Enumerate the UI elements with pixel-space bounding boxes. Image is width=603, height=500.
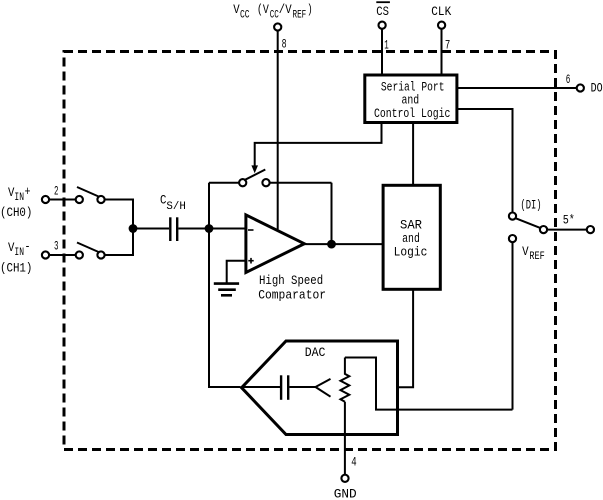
wire CS pin to serial port box bbox=[381, 29, 383, 76]
svg-text:REF: REF bbox=[529, 251, 544, 263]
svg-text:(V: (V bbox=[257, 2, 269, 17]
svg-text:CC: CC bbox=[270, 9, 279, 21]
wire resistor bottom to GND pin bbox=[344, 402, 346, 476]
svg-text:DAC: DAC bbox=[305, 345, 326, 360]
wire capacitor to wiper arrow bbox=[289, 386, 315, 388]
pin 2 VIN+ terminal bbox=[0, 184, 59, 220]
pin 5 terminal bbox=[563, 213, 594, 234]
wire pin2 to switch S1 bbox=[49, 199, 76, 201]
svg-text:6: 6 bbox=[566, 72, 571, 87]
svg-text:Control Logic: Control Logic bbox=[374, 106, 451, 121]
svg-text:(CH1): (CH1) bbox=[0, 261, 32, 276]
pin 3 VIN- terminal bbox=[0, 239, 59, 276]
svg-text:CC: CC bbox=[240, 9, 250, 21]
chip boundary dashed border bbox=[64, 52, 556, 450]
wire comparator output to SAR bbox=[304, 243, 383, 245]
switch S1 (CH0 input) bbox=[76, 187, 105, 203]
svg-text:V: V bbox=[233, 2, 240, 17]
node VREF contact bbox=[509, 235, 545, 263]
svg-text:8: 8 bbox=[282, 36, 287, 51]
pin 6 DO terminal bbox=[566, 72, 603, 96]
wire selector to pin 5 bbox=[547, 229, 587, 231]
svg-text:1: 1 bbox=[384, 38, 389, 53]
wire pin3 to switch S2 bbox=[49, 254, 76, 256]
node comparator output junction bbox=[327, 240, 336, 249]
pin 8 VCC terminal bbox=[233, 2, 312, 52]
wire switch S1 to input node bbox=[105, 200, 134, 229]
arrowhead pointing at sampling switch bbox=[251, 165, 258, 173]
wire auto-zero feedback top legs bbox=[209, 183, 332, 244]
wire DAC output to comparator input node bbox=[209, 229, 241, 388]
wire control line to sampling switch bbox=[255, 123, 382, 167]
serial port and control logic box U1 bbox=[365, 75, 457, 123]
svg-text:/V: /V bbox=[279, 2, 292, 17]
svg-text:): ) bbox=[307, 2, 313, 17]
svg-text:3: 3 bbox=[54, 239, 59, 254]
svg-text:DO: DO bbox=[591, 81, 603, 96]
svg-text:IN: IN bbox=[14, 192, 24, 204]
switch S3 sampling switch bbox=[239, 170, 270, 187]
node input junction bbox=[129, 224, 138, 233]
wire auto-zero feedback left leg bbox=[208, 183, 210, 229]
capacitor CS/H bbox=[160, 192, 186, 241]
svg-text:2: 2 bbox=[54, 184, 59, 199]
SAR and logic box U2 bbox=[383, 185, 440, 289]
svg-text:REF: REF bbox=[293, 9, 307, 21]
svg-text:7: 7 bbox=[445, 38, 450, 53]
wire comparator noninverting input to ground bbox=[227, 261, 245, 283]
svg-text:IN: IN bbox=[14, 247, 24, 259]
svg-text:5*: 5* bbox=[563, 213, 575, 228]
pin 4 GND terminal bbox=[334, 455, 357, 500]
svg-text:Comparator: Comparator bbox=[258, 287, 326, 302]
svg-text:CLK: CLK bbox=[431, 4, 451, 19]
wire CLK pin to serial port box bbox=[441, 29, 443, 76]
wire DAC left point to internal capacitor bbox=[242, 386, 280, 388]
ground symbol bbox=[214, 284, 239, 296]
wiper arrow pointing at resistor bbox=[316, 379, 331, 397]
svg-text:CS: CS bbox=[376, 4, 389, 19]
capacitor C2 inside DAC bbox=[281, 375, 288, 400]
wire VREF branch up to DI switch bbox=[512, 242, 514, 410]
resistor R1 ladder inside DAC bbox=[341, 358, 350, 402]
pin 7 CLK terminal bbox=[431, 4, 451, 53]
DAC block outline bbox=[242, 341, 398, 435]
switch S4 DI/VREF selector bbox=[509, 198, 547, 234]
wire serial port to SAR box bbox=[412, 123, 414, 186]
wire capacitor to comparator inverting input bbox=[178, 228, 245, 230]
op-amp U3 high speed comparator bbox=[246, 215, 326, 303]
wire switch S2 to input node bbox=[105, 229, 134, 256]
wire serial port to DO pin bbox=[458, 87, 577, 89]
pin 1 CS terminal bbox=[376, 1, 390, 52]
svg-text:(DI): (DI) bbox=[520, 198, 541, 213]
svg-text:High Speed: High Speed bbox=[259, 273, 323, 288]
wire node to capacitor CS/H bbox=[133, 228, 169, 230]
svg-text:V: V bbox=[522, 244, 529, 259]
wire VCC pin to comparator top bbox=[277, 31, 279, 230]
svg-text:-: - bbox=[25, 239, 31, 254]
svg-text:4: 4 bbox=[351, 455, 357, 470]
wire SAR to DAC bbox=[397, 289, 413, 387]
wire VREF feed to resistor top bbox=[345, 358, 513, 410]
svg-text:S/H: S/H bbox=[166, 201, 185, 213]
svg-text:+: + bbox=[25, 184, 31, 199]
svg-text:Logic: Logic bbox=[394, 245, 428, 260]
svg-text:GND: GND bbox=[334, 487, 357, 500]
node comparator input junction bbox=[205, 224, 214, 233]
wire serial port to DI switch bbox=[458, 109, 513, 213]
switch S2 (CH1 input) bbox=[76, 243, 105, 259]
svg-text:SAR: SAR bbox=[400, 217, 422, 232]
svg-text:(CH0): (CH0) bbox=[0, 205, 32, 220]
